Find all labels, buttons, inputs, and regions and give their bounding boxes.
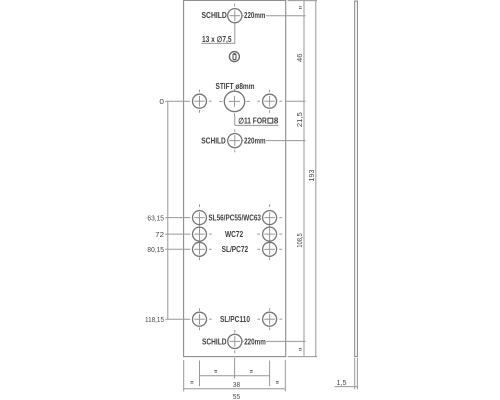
svg-text:55: 55 [233, 392, 240, 400]
bottom extension right hole column [269, 361, 271, 387]
dimension line 55 [184, 388, 286, 390]
svg-text:8: 8 [274, 116, 279, 125]
plate bottom extension [288, 356, 317, 358]
hole STIFT big center [219, 91, 250, 116]
svg-text:220mm: 220mm [244, 337, 266, 346]
hole S2 mid SCHILD circle [228, 129, 242, 152]
svg-text:SL/PC110: SL/PC110 [220, 315, 250, 324]
svg-text:SCHILD: SCHILD [202, 11, 227, 20]
side view extension lines [355, 358, 358, 389]
svg-text:108,5: 108,5 [295, 233, 304, 248]
hole STIFT right [257, 90, 282, 113]
svg-text:0: 0 [159, 97, 164, 106]
bottom extension centerline [234, 358, 236, 379]
hole R2 row 72 [257, 227, 282, 241]
stift centerline dash above [234, 89, 236, 91]
plate top extension [288, 0, 318, 2]
svg-text:118,15: 118,15 [145, 315, 164, 324]
svg-text:SCHILD: SCHILD [202, 337, 227, 346]
hole S3 bottom SCHILD circle [228, 330, 242, 353]
hole L4 row 118,15 [193, 308, 212, 330]
tick row stift right [286, 100, 306, 102]
svg-text:13 x ∅7,5: 13 x ∅7,5 [202, 35, 232, 44]
left tick row 0 [165, 100, 190, 102]
hole L2 row 72 [193, 227, 212, 241]
equal mark top right [299, 7, 302, 9]
left tick row 63,15 [165, 217, 190, 219]
svg-text:21,5: 21,5 [295, 112, 304, 127]
left column centerline through rows 63-80 [199, 212, 201, 254]
right chain vertical inner [303, 1, 305, 357]
left tick row 80,15 [165, 248, 190, 250]
leader 13x d7.5 [201, 23, 235, 44]
svg-text:220mm: 220mm [244, 11, 265, 20]
plate front view outline [184, 0, 286, 356]
svg-text:80,15: 80,15 [147, 245, 164, 254]
svg-text:38: 38 [233, 380, 240, 389]
hole L3 row 80,15 [193, 242, 212, 256]
svg-text:46: 46 [295, 53, 304, 62]
right outer vertical 193 [315, 1, 317, 357]
bottom extension right plate edge [284, 360, 286, 391]
bottom extension left hole column [199, 361, 201, 387]
equal mark bottom right [299, 349, 302, 351]
hole STIFT left [193, 90, 212, 113]
left tick row 118,15 [165, 318, 190, 320]
svg-text:193: 193 [307, 170, 316, 182]
equal marks 55 [191, 382, 279, 384]
hole R4 row 118,15 [257, 308, 282, 330]
right column centerline through rows 63-80 [269, 212, 271, 254]
keyhole symbol [229, 52, 239, 62]
svg-text:SL/PC72: SL/PC72 [222, 245, 249, 254]
hole R1 row 63,15 [263, 211, 283, 225]
svg-text:SL56/PC55/WC63: SL56/PC55/WC63 [208, 213, 261, 222]
hole S1 top SCHILD circle [228, 4, 242, 23]
svg-text:63,15: 63,15 [147, 213, 164, 222]
leader 220mm mid [242, 140, 244, 142]
svg-text:220mm: 220mm [244, 136, 266, 145]
plate side view [355, 1, 358, 357]
dimension line 38 [200, 375, 270, 377]
svg-text:SCHILD: SCHILD [201, 136, 226, 145]
left tick row 72 [165, 233, 190, 235]
svg-text:WC72: WC72 [225, 230, 244, 239]
leader d11 for sq8 [235, 116, 279, 125]
bottom extension left plate edge [183, 360, 185, 391]
hole L1 row 63,15 [193, 211, 207, 225]
svg-text:∅11 FOR: ∅11 FOR [238, 116, 267, 125]
svg-text:1,5: 1,5 [337, 378, 347, 387]
dimension line 1,5 [335, 386, 358, 388]
leader 220mm bottom [242, 340, 244, 342]
svg-text:72: 72 [155, 230, 164, 239]
left dim vertical connector [167, 101, 169, 319]
hole R3 row 80,15 [257, 242, 282, 256]
equal marks 38 [214, 371, 252, 373]
leader 220mm top [242, 15, 244, 17]
